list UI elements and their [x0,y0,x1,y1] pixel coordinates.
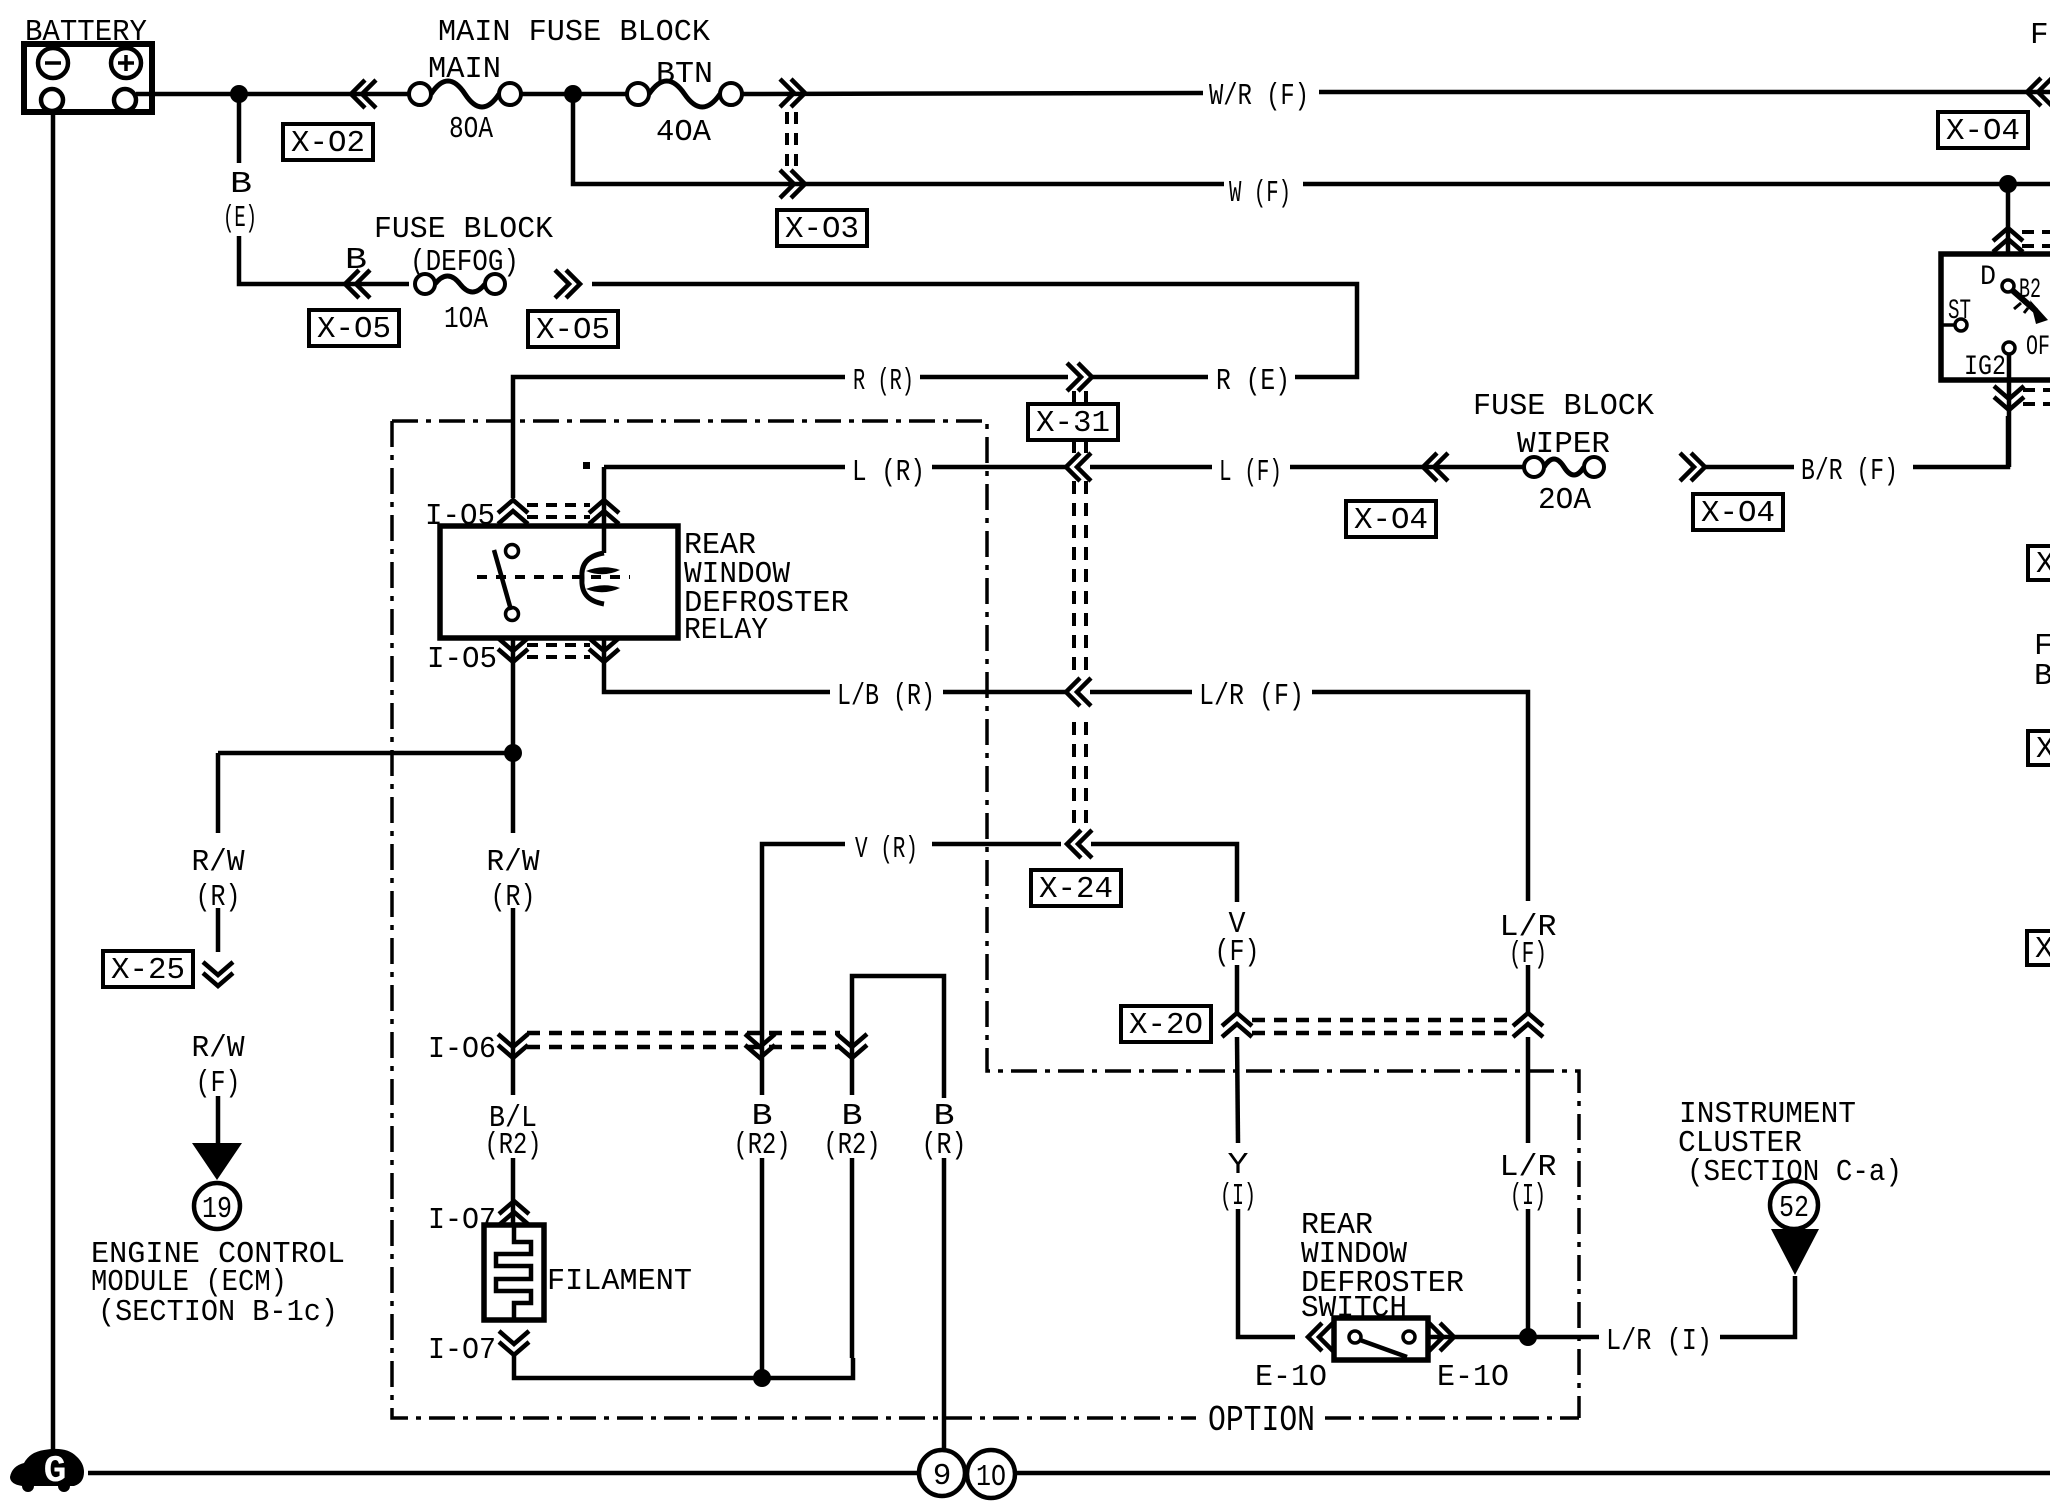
cluster circle 52 [1770,1181,1818,1229]
cluster arrow [1771,1229,1819,1275]
connector X-20 chevron right [1513,1013,1543,1037]
svg-text:X-O2: X-O2 [291,126,365,161]
connector X-05 chevron right [555,270,580,298]
ground circle 9 [919,1450,965,1496]
relay I-05 dashed joint top [527,505,590,517]
svg-text:(R2): (R2) [734,1128,791,1163]
svg-text:R/W: R/W [192,845,245,880]
connector X-31 chevron [1067,363,1092,391]
wire ignition feed [2006,184,2011,281]
connector X-05 chevron left [345,270,370,298]
node BTN feed junction [564,85,582,103]
connector L/B chevron [1066,678,1091,706]
svg-text:E-1O: E-1O [1255,1360,1327,1395]
relay switch contact bottom [506,608,519,621]
connector X-03 chevron top [780,79,805,107]
svg-text:19: 19 [202,1192,232,1227]
connector X-05 label box left [309,310,399,346]
node filament return junction [753,1369,771,1387]
svg-text:MAIN FUSE BLOCK: MAIN FUSE BLOCK [438,15,710,50]
wire V(R) corner [762,844,845,1095]
wire L/B to chevron [943,690,1066,695]
svg-text:IG2: IG2 [1964,352,2006,383]
wire R(E) to chevron [1092,375,1208,380]
wire W(F) right [1303,182,2050,187]
wire L/R(F) to corner [1312,692,1528,901]
svg-text:X-O3: X-O3 [785,212,859,247]
ignition joint dashes bottom [2023,390,2050,404]
relay coil wire top [602,467,607,553]
wire B/R(F) to ignition [1913,416,2008,467]
wire Y(I) lower [1238,1209,1295,1337]
X-20 dashed joint [1252,1020,1512,1033]
connector X-20 label box [1121,1006,1211,1042]
svg-text:(I): (I) [1220,1179,1256,1214]
svg-text:R/W: R/W [192,1031,245,1066]
wire B(E) upper [237,94,242,163]
connector X-25 label box [103,951,193,987]
wire V(F) down [1235,965,1240,1013]
connector X-03 label box [777,210,867,246]
wire L(R) [604,465,845,470]
svg-text:B: B [2034,659,2050,694]
wire MAIN fuse to BTN fuse [521,92,627,97]
filament element [496,1225,531,1320]
svg-text:OF: OF [2026,332,2050,363]
svg-text:(I): (I) [1510,1179,1546,1214]
svg-text:L (R): L (R) [852,455,925,490]
wire filament bottom [514,1355,853,1378]
fuse WIPER 20A [1524,457,1544,477]
wire W(F) from BTN junction [573,94,1224,184]
svg-text:L/R (I): L/R (I) [1606,1324,1712,1359]
connector X-24 chevron [1067,830,1092,858]
connector I-06 chevron 1 [498,1034,528,1058]
wire battery to MAIN fuse [136,92,409,97]
connector ignition top chevron [1993,228,2023,252]
connector X-03 dashed joint [787,112,796,170]
connector E-10 chevron left [1308,1323,1333,1351]
connector X-20 chevron left [1222,1013,1252,1037]
I-06 dashed joint [527,1033,840,1047]
ignition switch box [1941,254,2050,380]
relay I-05 dashed joint bottom [527,645,590,657]
ground bus wire [88,1471,2050,1476]
connector I-07 chevron bottom [499,1331,529,1355]
connector label box cut 1 [2028,546,2050,580]
wire L/R(I) upper [1526,1037,1531,1143]
svg-text:RELAY: RELAY [684,613,768,648]
svg-text:X-O4: X-O4 [1946,114,2020,149]
svg-text:E-1O: E-1O [1437,1360,1509,1395]
wire B(E) lower [239,236,409,284]
connector X-24 label box [1031,870,1121,906]
connector X-05 label box right [528,311,618,347]
switch contact right [1403,1331,1415,1343]
svg-text:X-O5: X-O5 [317,312,391,347]
svg-text:(SECTION B-1c): (SECTION B-1c) [98,1295,338,1330]
wire to ECM arrow [216,1096,221,1145]
ECM arrow [192,1143,242,1180]
wire V(R) right [932,842,1061,847]
svg-text:R (E): R (E) [1216,364,1290,399]
svg-text:(R2): (R2) [824,1128,881,1163]
svg-text:V (R): V (R) [855,832,918,867]
svg-text:9: 9 [933,1459,952,1494]
svg-text:G: G [44,1450,67,1493]
connector label box cut 3 [2027,931,2050,965]
fuse DEFOG 10A [415,274,435,294]
svg-text:FUSE BLOCK: FUSE BLOCK [1473,389,1654,424]
svg-text:FILAMENT: FILAMENT [547,1264,692,1299]
wire junction row [218,751,513,756]
connector X-04 label box wiper left [1346,501,1436,537]
wire relay switch down [511,638,516,753]
connector I-05 chevron bottom switch [498,638,528,662]
ignition terminal B2 [2002,280,2014,292]
relay switch arm [494,550,511,610]
svg-text:X: X [2035,932,2050,967]
svg-text:2OA: 2OA [1538,483,1591,518]
connector X-04 label box top right [1938,112,2028,148]
svg-text:B: B [230,167,252,202]
wire L(R) to chevron [932,465,1066,470]
wire Y(I) upper [1237,1037,1238,1143]
svg-text:X: X [2036,547,2050,582]
connector I-06 chevron 2 [745,1034,775,1058]
relay mechanical link dashed [477,575,630,579]
node stray dot [583,462,590,469]
connector I-07 chevron top [499,1201,529,1225]
svg-text:1OA: 1OA [444,302,488,337]
wire L/R(F) down [1526,965,1531,1013]
svg-text:I-O6: I-O6 [428,1032,496,1067]
ECM circle 19 [194,1183,240,1229]
wire B/L to I-07 [511,1158,516,1225]
connector I-05 chevron bottom coil [589,638,619,662]
wire R/W left drop [216,753,221,833]
wire to B/R(F) [1705,465,1794,470]
rear window defroster switch box [1334,1318,1428,1360]
svg-text:Y: Y [1228,1148,1249,1183]
connector X-04 chevron W/R [2027,78,2050,106]
svg-text:R/W: R/W [487,845,540,880]
svg-text:R (R): R (R) [853,364,914,399]
node relay output junction [504,744,522,762]
svg-text:(E): (E) [223,201,257,236]
wire W/R(F) left [742,93,1203,94]
svg-text:52: 52 [1779,1191,1809,1226]
wire V(R) to V(F) corner [1091,844,1237,902]
connector X-04 label box wiper right [1693,494,1783,530]
svg-text:(R): (R) [922,1128,967,1163]
svg-text:X: X [2036,732,2050,767]
wire U-link [852,976,944,1098]
option boundary box [392,421,1579,1418]
wire R/W left lower [216,908,221,952]
svg-text:1O: 1O [976,1460,1006,1495]
node ignition feed junction [1999,175,2017,193]
battery [24,44,152,112]
ignition rotor arrow [2012,290,2036,311]
harness joint dashed column [1074,391,1086,830]
wire x852 lower [850,1158,855,1358]
svg-text:X-O5: X-O5 [536,313,610,348]
connector X-31 label box [1028,404,1118,440]
svg-text:L/B (R): L/B (R) [837,679,935,714]
switch contact left [1349,1331,1361,1343]
wire L/R(I) lower [1526,1209,1531,1337]
wire L/R(F) mid [1090,690,1192,695]
relay switch contact top [506,545,519,558]
ignition joint dashes top [2022,232,2050,246]
svg-text:I-O7: I-O7 [428,1333,496,1368]
connector E-10 chevron right [1429,1323,1454,1351]
ignition ST stub [1941,323,1955,327]
connector X-25 chevron [203,962,233,986]
svg-text:BATTERY: BATTERY [25,15,147,50]
wire x762 mid [760,1158,765,1378]
connector I-05 chevron top coil [589,500,619,524]
connector wiper chevron right [1680,453,1705,481]
connector wiper chevron left [1423,453,1448,481]
ignition terminal ST [1955,319,1967,331]
svg-text:(F): (F) [196,1066,241,1101]
fuse MAIN 80A [409,83,431,105]
wire B/L down to label [511,1034,516,1095]
svg-text:X-2O: X-2O [1129,1008,1203,1043]
node L/R(I) junction [1519,1328,1537,1346]
svg-text:BTN: BTN [656,57,713,92]
rear window defroster relay box [440,526,678,638]
relay coil [582,553,604,604]
svg-text:4OA: 4OA [656,115,711,150]
connector X-03 chevron bottom [780,170,805,198]
wire defog to R(E) corner [592,284,1357,377]
connector X-02 chevron [351,80,376,108]
ground car symbol [10,1449,84,1486]
connector I-05 chevron top switch [498,500,528,524]
connector X-02 label box [283,124,373,160]
svg-text:(F): (F) [1215,935,1260,970]
svg-text:X-25: X-25 [111,953,185,988]
connector L chevron [1066,453,1091,481]
svg-text:X-O4: X-O4 [1701,496,1775,531]
svg-text:8OA: 8OA [449,112,493,147]
ignition terminal IG2 [2003,342,2015,354]
ground circle 10 [967,1450,1015,1498]
wire R/W right [511,753,516,833]
svg-text:L (F): L (F) [1219,455,1282,490]
svg-text:D: D [1980,262,1996,293]
wire battery negative drop [51,111,56,1452]
connector ignition bottom chevron [1994,386,2024,410]
svg-text:FUSE BLOCK: FUSE BLOCK [374,212,553,247]
wire L/R(I) to cluster [1720,1276,1795,1337]
svg-text:X-24: X-24 [1039,872,1113,907]
svg-text:FU: FU [2030,18,2050,53]
node battery feed junction [230,85,248,103]
fuse BTN 40A [627,83,649,105]
connector I-06 chevron 3 [837,1034,867,1058]
wire L(F) [1090,465,1212,470]
wire L(F) to wiper fuse [1290,465,1523,470]
wire relay coil down to L/B corner [604,638,830,692]
filament box [484,1225,544,1320]
wire IG2 down [2007,354,2012,467]
wire R(R) to relay corner [513,377,845,498]
svg-text:OPTION: OPTION [1208,1400,1315,1441]
svg-text:(R2): (R2) [485,1128,542,1163]
svg-text:MAIN: MAIN [428,52,501,87]
wire switch to junction [1428,1335,1599,1340]
wire R(R) mid [920,375,1068,380]
svg-text:I-O5: I-O5 [427,642,497,677]
connector label box cut 2 [2028,731,2050,765]
svg-text:X-O4: X-O4 [1354,503,1428,538]
wire W/R(F) right [1319,90,2050,95]
svg-text:B/R (F): B/R (F) [1801,454,1898,489]
ignition rotation dashes [2014,303,2028,313]
svg-text:L/R (F): L/R (F) [1199,679,1304,714]
switch arm [1360,1340,1407,1357]
wire x944 lower [942,1158,947,1452]
svg-text:W (F): W (F) [1229,176,1291,211]
svg-text:X-31: X-31 [1036,406,1110,441]
svg-text:W/R (F): W/R (F) [1209,79,1309,114]
